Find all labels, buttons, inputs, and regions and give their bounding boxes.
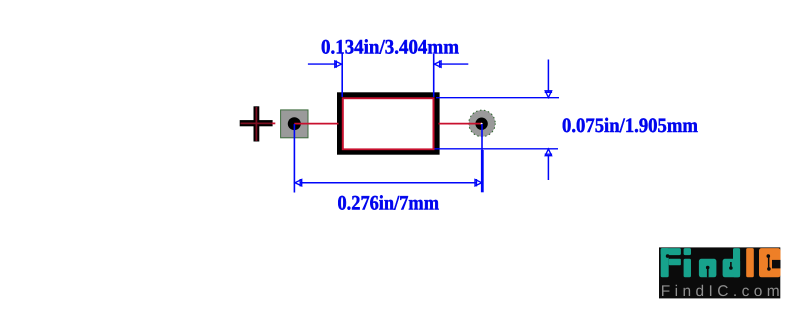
svg-text:0.134in/3.404mm: 0.134in/3.404mm — [321, 36, 459, 58]
svg-text:0.276in/7mm: 0.276in/7mm — [338, 193, 440, 215]
svg-text:0.075in/1.905mm: 0.075in/1.905mm — [562, 115, 698, 137]
